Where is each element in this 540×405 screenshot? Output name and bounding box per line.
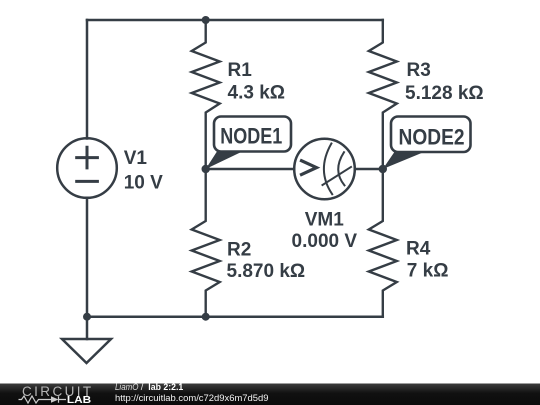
- node NODE1 junction: [202, 165, 210, 173]
- svg-text:R3: R3: [407, 60, 431, 81]
- wire left vertical upper: [86, 20, 89, 139]
- resistor R2: [192, 169, 220, 317]
- resistor R3: [369, 20, 397, 169]
- footer bar: [0, 384, 540, 405]
- svg-text:LAB: LAB: [67, 395, 91, 405]
- voltmeter VM1: [294, 139, 355, 200]
- svg-text:0.000 V: 0.000 V: [292, 231, 358, 252]
- svg-text:VM1: VM1: [305, 210, 345, 231]
- svg-text:V1: V1: [124, 148, 148, 169]
- svg-text:R2: R2: [227, 240, 251, 261]
- svg-text:10 V: 10 V: [124, 173, 163, 194]
- svg-text:5.870 kΩ: 5.870 kΩ: [227, 261, 306, 282]
- svg-text:NODE1: NODE1: [220, 124, 282, 149]
- wire voltmeter to node2: [355, 168, 383, 171]
- ground: [62, 317, 111, 363]
- resistor R1: [192, 20, 220, 169]
- svg-text:LiamO: LiamO: [115, 382, 139, 392]
- wire top rail: [87, 19, 383, 22]
- junction top node: [202, 16, 210, 24]
- svg-text:5.128 kΩ: 5.128 kΩ: [405, 83, 484, 104]
- resistor R4: [369, 169, 397, 317]
- junction R2 bottom: [202, 313, 210, 321]
- svg-text:4.3 kΩ: 4.3 kΩ: [228, 82, 286, 103]
- node label NODE1: [206, 117, 291, 170]
- wire left vertical lower: [86, 198, 89, 317]
- svg-text:7 kΩ: 7 kΩ: [407, 261, 449, 282]
- svg-text:lab 2:2.1: lab 2:2.1: [148, 382, 183, 392]
- wire node1 to voltmeter: [206, 168, 295, 171]
- junction ground tap: [83, 313, 91, 321]
- wire bottom rail: [87, 315, 383, 318]
- svg-text:/: /: [141, 382, 144, 392]
- node label NODE2: [383, 117, 471, 170]
- voltage source V1: [57, 138, 117, 198]
- footer logo resistor-diode glyph: [19, 396, 67, 403]
- node NODE2 junction: [379, 165, 387, 173]
- svg-text:http://circuitlab.com/c72d9x6m: http://circuitlab.com/c72d9x6m7d5d9: [115, 392, 269, 403]
- svg-text:R4: R4: [406, 238, 431, 259]
- svg-text:NODE2: NODE2: [399, 124, 465, 149]
- svg-text:R1: R1: [228, 60, 253, 81]
